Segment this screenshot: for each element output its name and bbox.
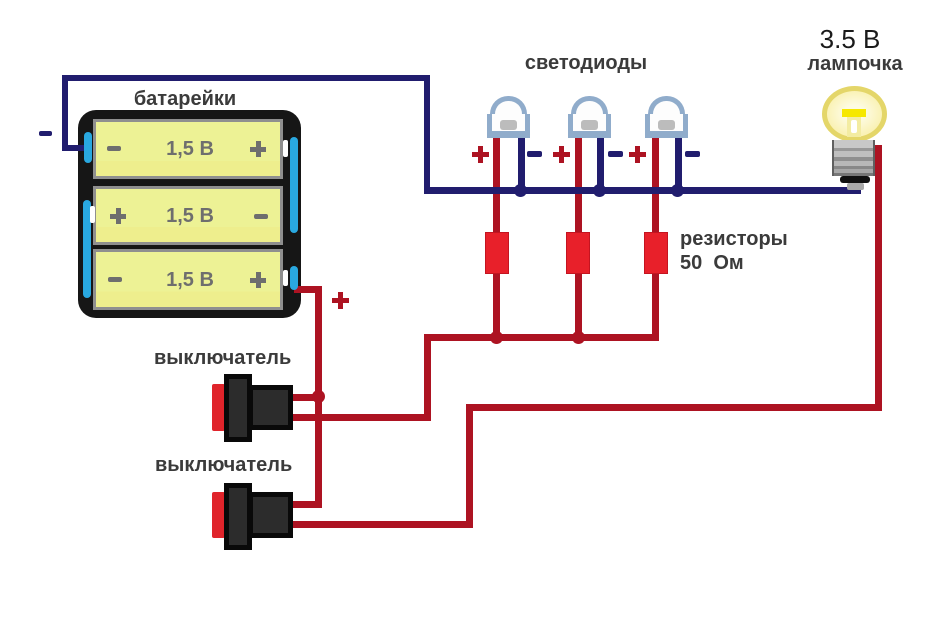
switch S1 main body: [248, 385, 293, 430]
cell 2 plus mark: [110, 208, 126, 224]
wire: switch2 bottom terminal run (red): [288, 521, 473, 528]
battery contact bar cell1 right (white): [283, 140, 288, 157]
resistor R3 50 Ohm: [644, 232, 668, 274]
lamp bulb glass: [822, 86, 887, 142]
lamp base collar (black): [840, 176, 870, 183]
switch S2 main body: [248, 492, 293, 538]
lamp filament stem: [847, 117, 861, 137]
label: battery positive plus (red): [332, 292, 349, 309]
label: LED2 plus (red): [553, 146, 570, 163]
label: battery negative minus (blue): [39, 131, 52, 136]
wire: negative lead from battery tab (horizontal): [62, 145, 88, 151]
switch S1 button (red): [212, 384, 225, 431]
wire: switch1 top terminal stub (red): [288, 394, 319, 401]
lamp base tip (gray): [847, 183, 864, 190]
label: LED1 minus (blue): [527, 151, 542, 157]
battery strap cells2-3 left (blue): [83, 200, 91, 298]
cell 2 value label 1,5 B: [130, 205, 250, 228]
wire: LED1 anode / resistor R1 vertical (red): [493, 130, 500, 341]
switch S1 plunger body: [224, 374, 252, 442]
lamp screw base: [832, 140, 875, 176]
label: LED3 minus (blue): [685, 151, 700, 157]
label: 3.5 B: [790, 26, 910, 52]
label: LED1 plus (red): [472, 146, 489, 163]
label: лампочка: [790, 53, 920, 76]
cell 1 plus mark: [250, 141, 266, 157]
resistor R1 50 Ohm: [485, 232, 509, 274]
wire: LED2 anode / resistor R2 vertical (red): [575, 130, 582, 341]
label: резисторы 50 Ом: [680, 227, 788, 275]
battery cell 1 (1,5 B, - left + right): [93, 119, 283, 179]
node: LED1 cathode junction: [514, 184, 527, 197]
node: LED3 cathode junction: [671, 184, 684, 197]
cell 1 value label 1,5 B: [130, 138, 250, 161]
wire: bus drop to switch1 (red vertical): [424, 334, 431, 421]
wire: negative lead vertical up: [62, 75, 68, 149]
wire: resistor bottom bus (red horizontal): [424, 334, 659, 341]
label: LED3 plus (red): [629, 146, 646, 163]
wire: negative drop to bus: [424, 75, 430, 193]
battery pack body: [78, 110, 301, 318]
wire: negative bus to lamp (blue horizontal): [424, 187, 861, 194]
node: resistor R2 bus junction: [572, 331, 585, 344]
cell 2 minus mark: [254, 214, 268, 219]
cell 3 plus mark: [250, 272, 266, 288]
wire: LED3 anode / resistor R3 vertical (red): [652, 130, 659, 341]
switch S2 plunger body: [224, 483, 252, 550]
LED D3 body: [645, 96, 688, 138]
LED D1 body: [487, 96, 530, 138]
wire: run to lamp (red horizontal): [466, 404, 882, 411]
node: resistor R1 bus junction: [490, 331, 503, 344]
node: LED2 cathode junction: [593, 184, 606, 197]
battery cell 3 (1,5 B, - left + right): [93, 249, 283, 310]
battery terminal tab cell3 right (blue): [290, 266, 298, 290]
label: выключатель (switch S1): [154, 347, 291, 370]
wire: positive lead from battery cell3 (horizontal): [294, 286, 322, 293]
resistor R2 50 Ohm: [566, 232, 590, 274]
lamp filament cap (bright yellow): [842, 109, 866, 117]
wire: LED1 cathode leg (blue): [518, 130, 525, 192]
battery terminal tab cell1 left (blue): [84, 132, 92, 163]
label: LED2 minus (blue): [608, 151, 623, 157]
wire: LED2 cathode leg (blue): [597, 130, 604, 192]
wire: switch2 top terminal stub (red): [288, 501, 322, 508]
LED D2 body: [568, 96, 611, 138]
battery cell 2 (1,5 B, + left - right): [93, 186, 283, 245]
label: батарейки: [110, 88, 260, 111]
wire: riser from switch2 run (red vertical): [466, 404, 473, 528]
label: выключатель (switch S2): [155, 454, 292, 477]
battery contact bar cell2 left (white): [90, 206, 95, 223]
lamp filament core highlight: [851, 120, 857, 133]
wire: lamp positive drop (red vertical): [875, 145, 882, 411]
cell 1 minus mark: [107, 146, 121, 151]
wire: switch1 bottom terminal run (red): [288, 414, 431, 421]
wire: positive vertical down to switches: [315, 286, 322, 508]
battery contact bar cell3 right (white): [283, 270, 288, 286]
cell 3 value label 1,5 B: [130, 269, 250, 292]
node: battery positive / switch1 junction: [312, 390, 325, 403]
label: светодиоды: [506, 52, 666, 75]
wire: negative top horizontal run: [62, 75, 430, 81]
cell 3 minus mark: [108, 277, 122, 282]
switch S2 button (red): [212, 492, 225, 538]
wire: LED3 cathode leg (blue): [675, 130, 682, 192]
battery strap cells1-2 right (blue): [290, 137, 298, 233]
